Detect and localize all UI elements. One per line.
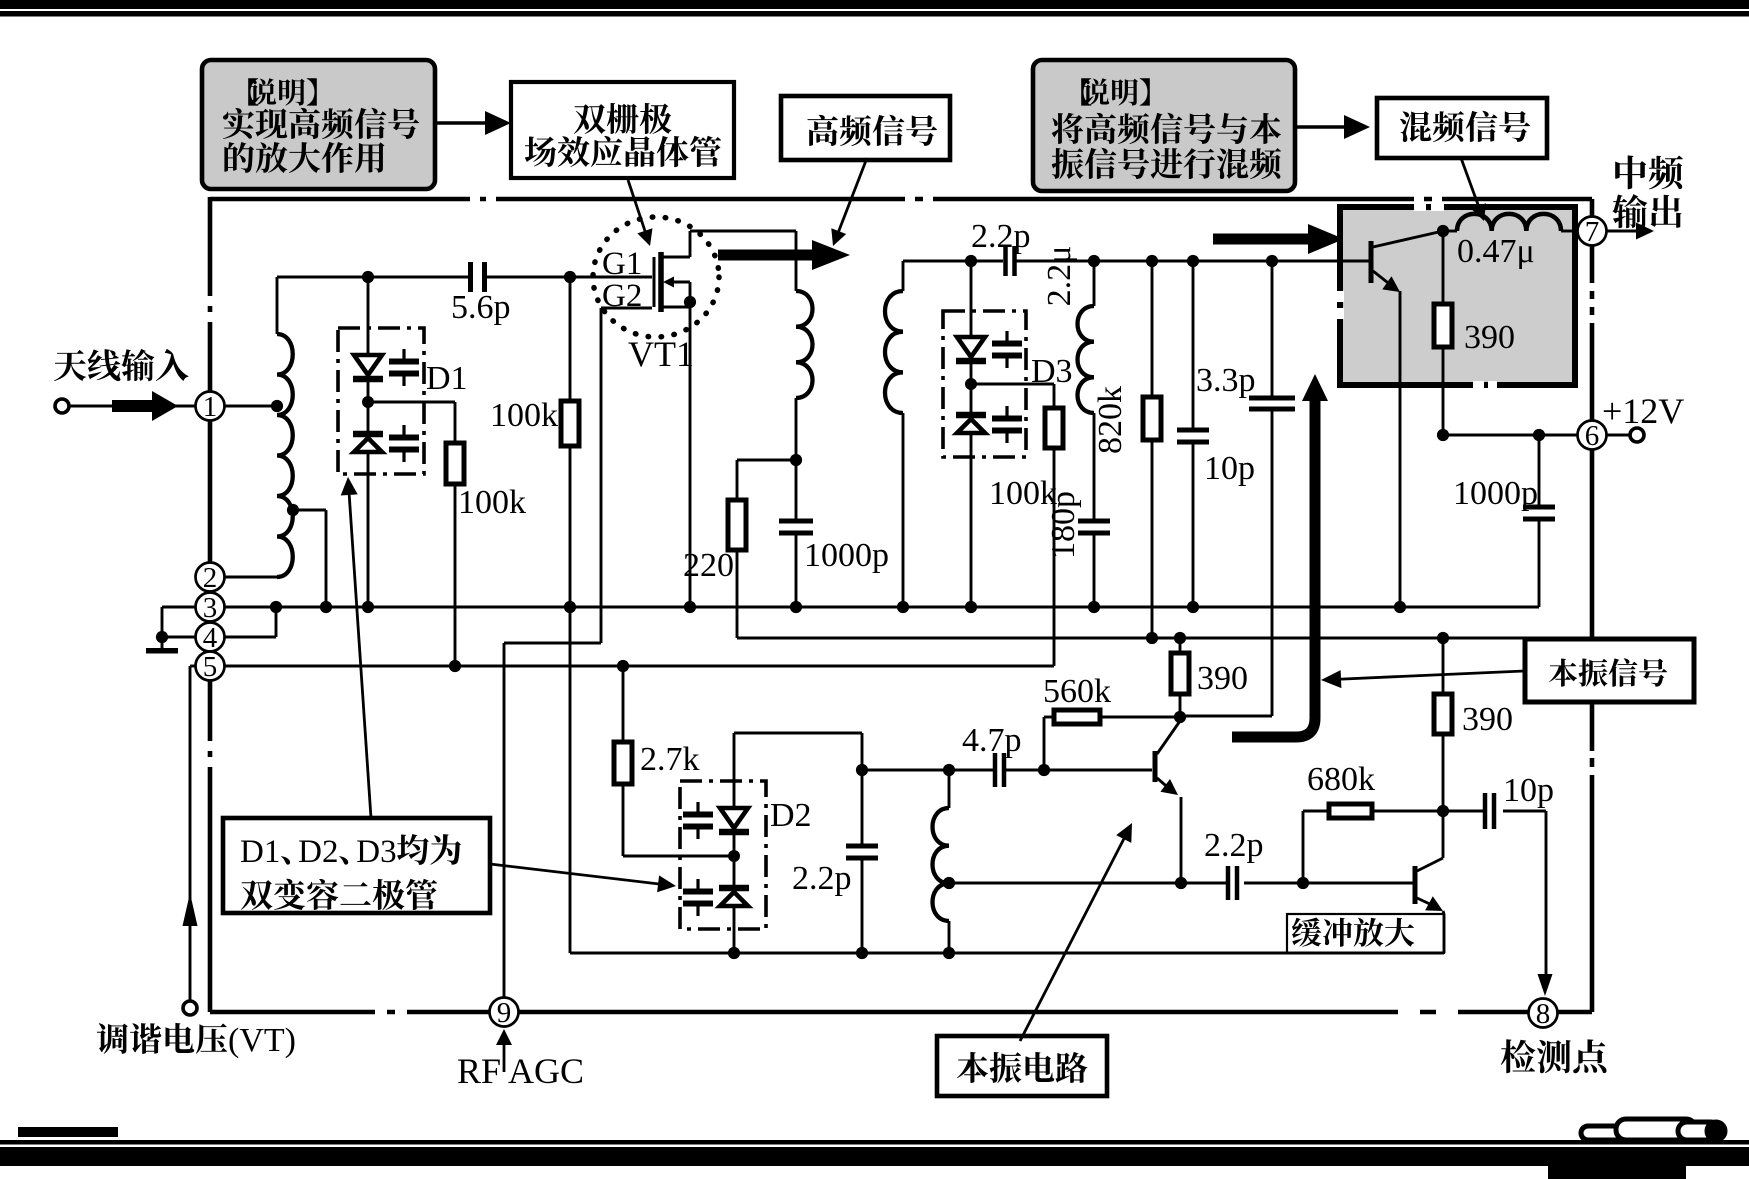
svg-text:390: 390 <box>1464 319 1515 356</box>
svg-text:VT1: VT1 <box>628 334 694 374</box>
svg-text:390: 390 <box>1197 660 1248 697</box>
svg-text:1000p: 1000p <box>1453 475 1538 512</box>
svg-text:D3: D3 <box>356 834 396 870</box>
svg-text:10p: 10p <box>1503 772 1554 809</box>
svg-text:D2: D2 <box>770 797 812 834</box>
svg-text:180p: 180p <box>1045 491 1082 559</box>
svg-text:10p: 10p <box>1204 450 1255 487</box>
svg-text:2.2p: 2.2p <box>792 860 852 897</box>
svg-text:680k: 680k <box>1307 761 1375 798</box>
svg-text:D1: D1 <box>240 834 280 870</box>
svg-text:3.3p: 3.3p <box>1196 362 1256 399</box>
svg-text:9: 9 <box>497 997 512 1029</box>
svg-text:100k: 100k <box>458 484 526 521</box>
svg-text:G1: G1 <box>602 246 642 282</box>
svg-text:6: 6 <box>1585 420 1600 452</box>
svg-text:RF AGC: RF AGC <box>457 1051 584 1091</box>
svg-text:2.2p: 2.2p <box>971 218 1031 255</box>
svg-text:100k: 100k <box>490 397 558 434</box>
svg-text:2: 2 <box>203 562 218 594</box>
svg-text:+12V: +12V <box>1602 391 1684 431</box>
svg-text:7: 7 <box>1585 216 1600 248</box>
svg-text:4: 4 <box>203 622 218 654</box>
svg-text:2.2p: 2.2p <box>1204 827 1264 864</box>
svg-text:4.7p: 4.7p <box>962 722 1022 759</box>
svg-text:D2: D2 <box>298 834 338 870</box>
svg-text:560k: 560k <box>1043 673 1111 710</box>
svg-text:5.6p: 5.6p <box>451 289 511 326</box>
svg-text:(VT): (VT) <box>228 1022 296 1059</box>
svg-text:390: 390 <box>1462 701 1513 738</box>
svg-text:220: 220 <box>683 547 734 584</box>
svg-text:D1: D1 <box>426 360 468 397</box>
svg-text:820k: 820k <box>1092 386 1129 454</box>
svg-text:5: 5 <box>203 651 218 683</box>
svg-text:8: 8 <box>1536 998 1551 1030</box>
svg-text:0.47μ: 0.47μ <box>1457 233 1535 270</box>
svg-text:2.7k: 2.7k <box>640 741 700 778</box>
svg-text:1: 1 <box>203 391 218 423</box>
svg-text:2.2μ: 2.2μ <box>1041 246 1078 307</box>
svg-text:3: 3 <box>203 592 218 624</box>
svg-text:1000p: 1000p <box>804 537 889 574</box>
svg-text:G2: G2 <box>602 278 642 314</box>
